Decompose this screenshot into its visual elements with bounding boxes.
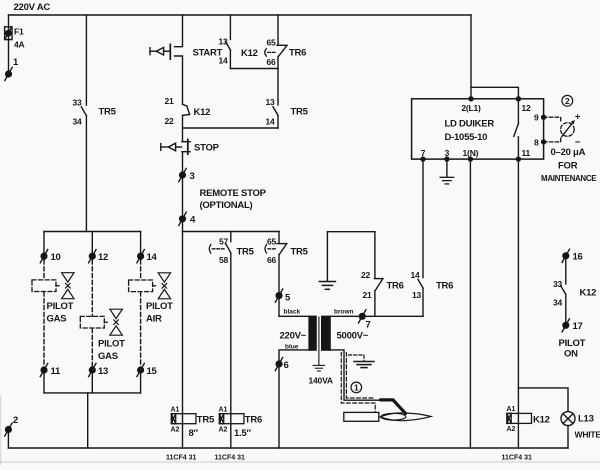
- svg-text:black: black: [284, 309, 301, 316]
- wire bottom return rail: [8, 447, 568, 449]
- wire: [565, 256, 567, 284]
- internal flame relay contact: [517, 99, 519, 124]
- wire parallel branch bottom: [230, 68, 278, 70]
- svg-text:8: 8: [534, 138, 539, 148]
- wire left rail: [8, 15, 10, 71]
- svg-text:A1: A1: [171, 406, 180, 413]
- contact TR6 65-66 timed NC: [277, 15, 279, 45]
- svg-text:13: 13: [98, 366, 108, 377]
- timer coil TR5: [171, 414, 196, 424]
- svg-text:9: 9: [534, 113, 539, 123]
- svg-text:1: 1: [354, 383, 359, 393]
- node 7: [359, 310, 366, 323]
- svg-text:8″: 8″: [189, 428, 199, 439]
- svg-text:REMOTE STOP: REMOTE STOP: [200, 188, 267, 199]
- circled 2 meter callout: [562, 95, 573, 106]
- svg-text:17: 17: [573, 321, 583, 332]
- svg-text:K12: K12: [194, 107, 211, 118]
- ground: [319, 282, 335, 290]
- svg-text:PILOT: PILOT: [47, 301, 74, 312]
- svg-text:33: 33: [72, 98, 82, 108]
- svg-text:65: 65: [267, 237, 277, 247]
- svg-text:blue: blue: [285, 344, 299, 351]
- svg-text:22: 22: [361, 270, 371, 280]
- svg-text:AIR: AIR: [146, 314, 162, 325]
- wire terminal 3 earth: [446, 159, 448, 177]
- contact TR6 14-13 NO: [422, 159, 424, 278]
- svg-text:2: 2: [13, 415, 18, 426]
- node 15: [137, 363, 144, 376]
- node 11: [40, 363, 47, 376]
- svg-text:58: 58: [219, 255, 229, 265]
- svg-text:K12: K12: [533, 415, 550, 426]
- contact K12 33-34 NO: [561, 286, 566, 295]
- node 2: [5, 423, 12, 436]
- wire secondary brown: [330, 315, 423, 317]
- svg-text:65: 65: [266, 38, 276, 48]
- svg-text:14: 14: [410, 270, 420, 280]
- wire pilot air column 3 solid stubs: [140, 232, 142, 260]
- contact TR5 57-58 timed NO: [230, 232, 232, 242]
- svg-text:F1: F1: [14, 27, 24, 37]
- svg-text:A1: A1: [507, 406, 516, 413]
- wire primary blue: [279, 350, 309, 448]
- wire secondary HV to igniter: [330, 350, 381, 400]
- wire pilot manifold top header: [44, 231, 141, 233]
- svg-text:2: 2: [565, 96, 570, 106]
- svg-text:21: 21: [164, 96, 174, 106]
- transformer core earth: [318, 317, 320, 365]
- svg-text:WHITE: WHITE: [575, 430, 600, 440]
- svg-text:TR6: TR6: [387, 281, 404, 292]
- circled 1 igniter callout: [351, 382, 362, 393]
- svg-text:6: 6: [284, 360, 289, 371]
- svg-text:34: 34: [72, 117, 82, 127]
- wire node 2 stub: [7, 431, 9, 448]
- wire branch rejoin: [183, 127, 279, 129]
- terminal 9: [541, 115, 546, 120]
- svg-text:TR5: TR5: [291, 107, 309, 118]
- burner body: [344, 412, 379, 421]
- wire jumper to terminal 12: [471, 87, 518, 99]
- node 3: [179, 168, 186, 181]
- maintenance meter 0-20 uA: [544, 117, 561, 122]
- push button STOP NC: [182, 141, 190, 143]
- svg-text:TR6: TR6: [436, 281, 453, 292]
- relay coil K12: [507, 413, 532, 423]
- svg-text:14: 14: [265, 117, 275, 127]
- svg-text:57: 57: [219, 237, 229, 247]
- svg-text:+: +: [575, 112, 581, 123]
- svg-text:K12: K12: [580, 288, 597, 299]
- svg-text:0–20 μA: 0–20 μA: [551, 147, 586, 158]
- lamp L13 WHITE: [561, 412, 575, 426]
- scan artifact bottom edge: [0, 461, 600, 463]
- svg-text:11: 11: [51, 366, 62, 377]
- svg-text:11CF4 31: 11CF4 31: [502, 455, 532, 462]
- wire pilot gas column 2 solid stubs: [91, 232, 93, 260]
- svg-text:220V~: 220V~: [280, 331, 307, 342]
- svg-text:brown: brown: [334, 309, 354, 316]
- shielded cable outline: [341, 353, 375, 412]
- terminal 8: [541, 139, 546, 144]
- node 6: [275, 357, 282, 370]
- svg-text:3: 3: [445, 148, 450, 158]
- svg-text:ON: ON: [564, 349, 578, 360]
- svg-text:33: 33: [553, 279, 563, 289]
- wire TR5 contact rail: [85, 15, 87, 105]
- wire pilot gas column 1 dashed: [43, 260, 45, 280]
- svg-text:12: 12: [98, 252, 108, 263]
- burner nozzle flame: [380, 413, 431, 421]
- svg-text:A2: A2: [219, 426, 228, 433]
- node 10: [40, 250, 47, 263]
- wire: [567, 426, 569, 448]
- svg-text:A1: A1: [219, 406, 228, 413]
- wire supply to terminal 2(L1): [470, 15, 472, 99]
- solenoid valve PILOT GAS 2: [80, 309, 122, 335]
- svg-text:GAS: GAS: [98, 351, 118, 362]
- svg-text:11: 11: [522, 148, 531, 158]
- svg-text:14: 14: [147, 252, 158, 263]
- wire pilot manifold outlet stem: [87, 393, 89, 448]
- svg-text:TR6: TR6: [245, 415, 262, 426]
- terminal 7: [420, 156, 425, 161]
- svg-text:22: 22: [164, 116, 174, 126]
- svg-text:PILOT: PILOT: [559, 338, 586, 349]
- svg-text:12: 12: [522, 103, 532, 113]
- svg-text:TR5: TR5: [99, 107, 117, 118]
- node 16: [562, 249, 569, 262]
- wire primary black: [279, 315, 309, 317]
- wire: [182, 152, 184, 448]
- contact TR6 22-21 timed NC: [374, 232, 376, 278]
- svg-text:5000V~: 5000V~: [337, 331, 369, 342]
- svg-text:4A: 4A: [14, 40, 25, 50]
- svg-text:14: 14: [218, 56, 228, 66]
- fuse F1 4A: [5, 27, 12, 40]
- wire: [85, 116, 87, 232]
- push button START: [175, 15, 183, 47]
- contact K12 21-22 NC: [183, 104, 187, 106]
- wire timer branch header: [183, 231, 280, 233]
- node 1: [5, 67, 12, 80]
- wire pilot gas column 2 dashed: [91, 260, 93, 316]
- node 12: [89, 250, 96, 263]
- svg-text:11CF4 31: 11CF4 31: [215, 455, 245, 462]
- svg-text:13: 13: [265, 97, 275, 107]
- svg-text:66: 66: [266, 57, 276, 67]
- svg-text:10: 10: [51, 252, 61, 263]
- svg-text:TR6: TR6: [289, 48, 306, 59]
- wire: [182, 115, 184, 141]
- svg-text:L13: L13: [578, 414, 594, 425]
- wire TR6 ground branch: [327, 232, 375, 281]
- wire lamp branch: [518, 388, 568, 412]
- solenoid valve PILOT GAS 1: [32, 273, 74, 299]
- transformer T1 primary winding: [309, 316, 316, 350]
- wire top supply rail: [9, 14, 472, 16]
- svg-text:140VA: 140VA: [309, 376, 333, 386]
- timer coil TR6: [219, 414, 244, 424]
- svg-text:220V AC: 220V AC: [14, 2, 51, 13]
- svg-text:K12: K12: [241, 48, 258, 59]
- svg-text:(OPTIONAL): (OPTIONAL): [200, 200, 253, 211]
- node 13: [89, 363, 96, 376]
- contact TR5 33-34: [81, 107, 86, 116]
- wire terminal 11 to K12: [517, 159, 519, 448]
- terminal 3: [444, 156, 449, 161]
- burner controller U1 LD DUIKER D-1055-10: [412, 99, 544, 159]
- svg-text:13: 13: [218, 36, 228, 46]
- contact TR5 65-66 timed NC: [278, 232, 280, 243]
- svg-text:GAS: GAS: [47, 314, 67, 325]
- wire pilot air column 3 dashed: [140, 260, 142, 280]
- node 4: [179, 212, 186, 225]
- svg-text:STOP: STOP: [194, 143, 220, 154]
- ignition electrode: [381, 400, 406, 414]
- svg-text:A2: A2: [171, 426, 180, 433]
- svg-text:TR5: TR5: [197, 415, 215, 426]
- svg-text:PILOT: PILOT: [98, 339, 125, 350]
- wire pilot gas column 1 solid stubs: [43, 232, 45, 260]
- svg-text:7: 7: [421, 148, 426, 158]
- solenoid valve PILOT AIR: [129, 273, 171, 299]
- svg-text:11CF4 31: 11CF4 31: [166, 455, 196, 462]
- svg-text:1(N): 1(N): [463, 148, 479, 158]
- svg-text:MAINTENANCE: MAINTENANCE: [541, 174, 597, 183]
- contact K12 13-14: [229, 15, 231, 40]
- svg-text:TR5: TR5: [237, 247, 255, 258]
- svg-text:2(L1): 2(L1): [461, 103, 481, 113]
- svg-text:34: 34: [553, 298, 563, 308]
- svg-text:16: 16: [573, 252, 583, 263]
- svg-text:7: 7: [366, 320, 371, 331]
- wire neutral 1(N): [469, 159, 471, 448]
- wire: [277, 69, 279, 105]
- svg-text:D-1055-10: D-1055-10: [445, 132, 488, 143]
- cable shield earth: [349, 355, 365, 361]
- wire pilot manifold bottom header: [44, 392, 141, 394]
- svg-text:LD DUIKER: LD DUIKER: [445, 119, 495, 130]
- terminal 2(L1): [468, 96, 473, 101]
- svg-text:13: 13: [412, 290, 422, 300]
- svg-text:TR5: TR5: [291, 247, 309, 258]
- node 14: [137, 250, 144, 263]
- node 5: [275, 289, 282, 302]
- terminal 11: [516, 156, 521, 161]
- svg-text:66: 66: [267, 255, 277, 265]
- svg-text:3: 3: [190, 171, 195, 182]
- svg-text:15: 15: [147, 366, 158, 377]
- svg-text:A2: A2: [507, 426, 516, 433]
- svg-text:1.5″: 1.5″: [234, 428, 251, 439]
- svg-text:21: 21: [362, 290, 372, 300]
- terminal 12: [516, 96, 521, 101]
- svg-text:FOR: FOR: [558, 161, 578, 172]
- svg-text:PILOT: PILOT: [146, 301, 173, 312]
- transformer T1 secondary winding: [322, 316, 330, 350]
- contact TR5 13-14: [273, 107, 278, 116]
- terminal 1(N): [468, 156, 473, 161]
- node 17: [562, 319, 569, 332]
